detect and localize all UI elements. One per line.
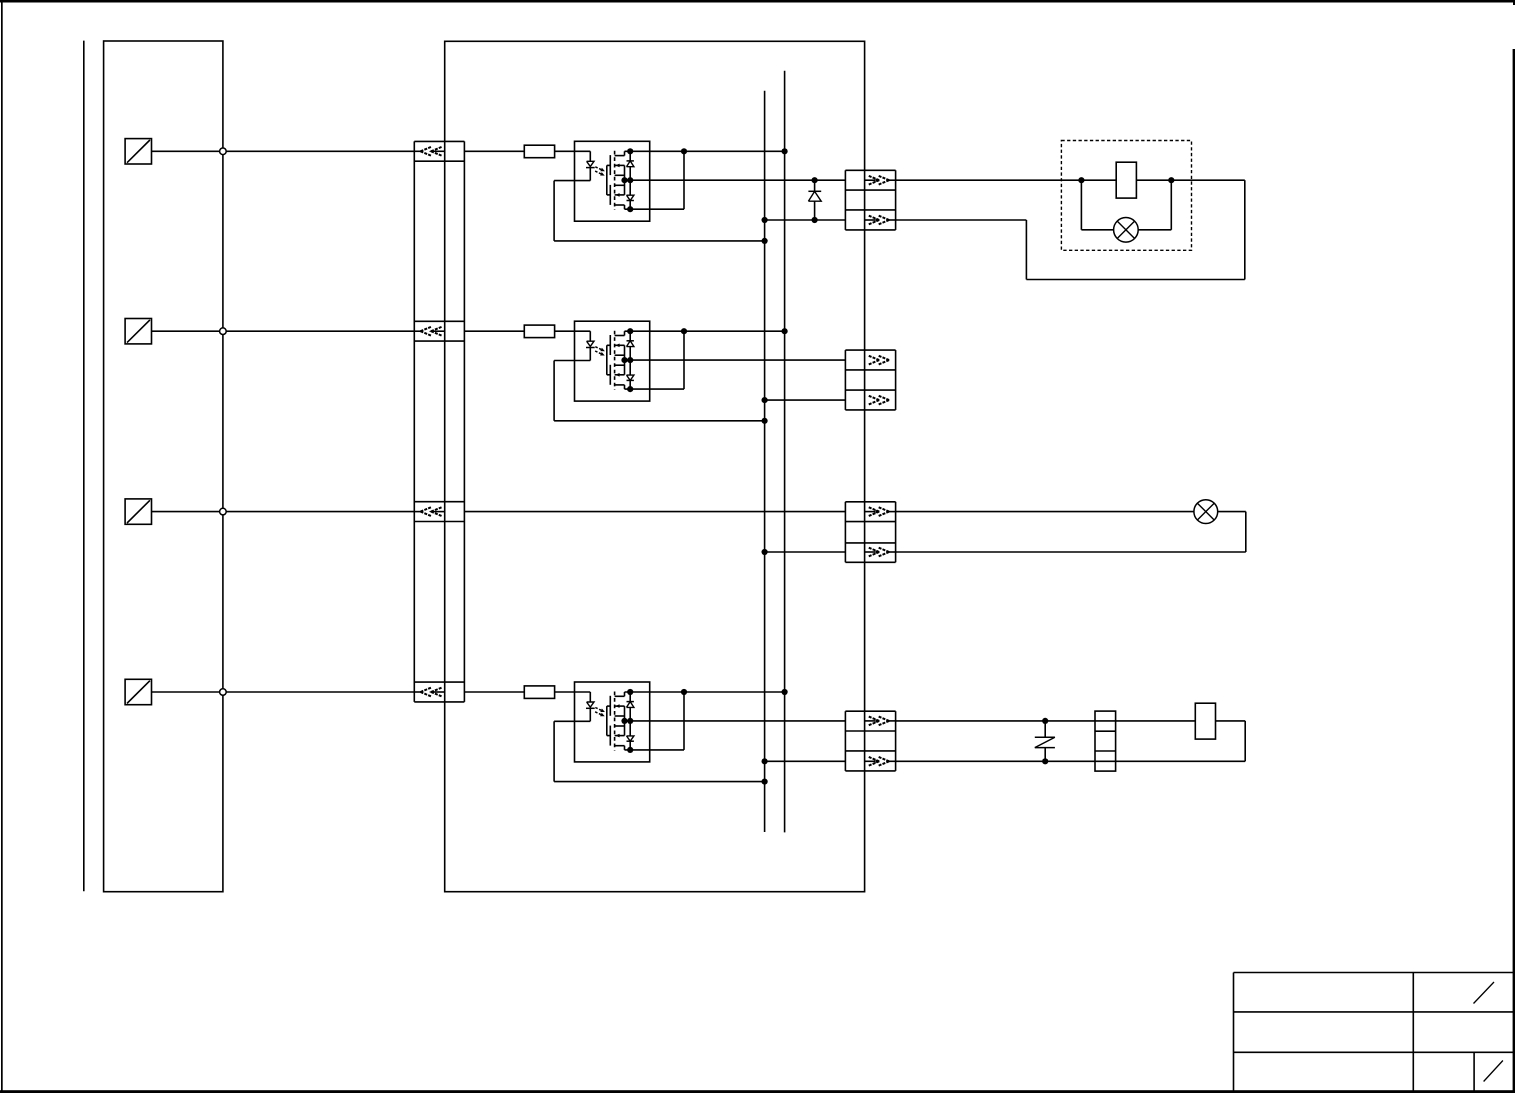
connector X3 strip — [1095, 711, 1116, 771]
title block — [1234, 973, 1514, 1091]
connector X2 pin 1b (>>) — [865, 216, 896, 225]
MOSFET pair U2 channel — [614, 331, 616, 390]
body diodes U2 — [627, 331, 634, 389]
connector X2 pin 1a (>>) — [865, 176, 896, 185]
LED U1 — [586, 151, 595, 180]
wire bus1 to X2 row2 — [762, 397, 846, 403]
trunk line — [83, 41, 85, 892]
MOSFET pair U1 terminals — [615, 151, 625, 209]
relay K1 coil — [1116, 162, 1136, 198]
MOSFET pair U1 channel — [614, 151, 616, 210]
wire U2 source out — [621, 357, 845, 363]
fuse F4 — [524, 686, 554, 699]
MOSFET pair U4 channel — [614, 692, 616, 751]
ECU box — [104, 41, 223, 892]
wire X1 to fuse F4 — [464, 691, 524, 693]
wire S3 to connector X1 — [152, 511, 415, 513]
wire S2 to connector X1 — [152, 330, 415, 332]
connector X2 pin 3a (>>) — [865, 507, 896, 516]
connector X1 pin 1 (<<) — [414, 147, 444, 156]
connector X2 pin 3b (>>) — [865, 548, 896, 557]
wire U2 bottom — [625, 331, 685, 392]
wire row1 feed — [896, 177, 1116, 183]
connector X1 pin 3 (<<) — [414, 507, 444, 516]
wire LED return U2 — [554, 361, 768, 424]
body diodes U1 — [627, 151, 634, 209]
wire U4 bottom — [625, 692, 685, 753]
bus line 2 — [784, 71, 786, 833]
wire K1 to corner — [1137, 177, 1245, 183]
wire U2 drain rail — [625, 328, 788, 334]
fuse F1 — [524, 145, 554, 158]
connector X2 block row4 — [845, 711, 895, 771]
relay K1 dashed enclosure — [1061, 141, 1191, 251]
resistor R1 — [1195, 703, 1215, 739]
connector X2 block row1 — [845, 170, 895, 230]
wire X1 to fuse F2 — [464, 330, 524, 332]
wire F4 to SSR U4 — [555, 691, 591, 693]
MOSFET pair U2 terminals — [615, 331, 625, 389]
MOSFET pair U4 terminals — [615, 692, 625, 750]
wire row4 feed — [896, 718, 1196, 724]
wire U1 drain rail — [625, 148, 788, 154]
wire row3 to lamp — [896, 511, 1195, 513]
wire U1 source out — [621, 177, 845, 183]
wire row3 return — [896, 512, 1246, 552]
wire X1 to fuse F1 — [464, 150, 524, 152]
MOSFET pair U2 gates — [607, 335, 611, 385]
connector X1 terminal strip — [414, 141, 464, 702]
fuse F2 — [524, 325, 554, 338]
wire row1 return loop — [896, 180, 1245, 279]
connector X1 pin 4 (<<) — [414, 688, 444, 697]
light arrows U1 — [595, 167, 605, 176]
connector X2 pin 2a (>>) — [869, 356, 890, 365]
lamp L2 — [1194, 500, 1218, 524]
wire U4 drain rail — [625, 689, 788, 695]
wire bus1 to X2 row1 — [762, 217, 846, 223]
connector X1 pin 2 (<<) — [414, 327, 444, 336]
wire U4 source out — [621, 718, 845, 724]
wire LED return U1 — [554, 181, 768, 244]
wire bus1 to X2 row3 — [762, 549, 846, 555]
surge suppressor Z1 — [1035, 721, 1055, 761]
node 2 (open junction) — [220, 328, 227, 335]
body diodes U4 — [627, 692, 634, 750]
wire F1 to SSR U1 — [555, 150, 591, 152]
diode D1 — [808, 177, 821, 223]
node 3 (open junction) — [220, 508, 227, 515]
wire F2 to SSR U2 — [555, 330, 591, 332]
switch S2 — [125, 319, 151, 344]
wire U1 bottom — [625, 151, 685, 212]
wire S4 to connector X1 — [152, 691, 415, 693]
MOSFET pair U4 gates — [607, 696, 611, 746]
wire row3 through — [464, 511, 845, 513]
connector X2 pin 4b (>>) — [865, 757, 896, 766]
lamp L1 — [1114, 218, 1139, 243]
solid-state relay U1 box — [575, 141, 650, 221]
control module box — [445, 41, 865, 891]
switch S1 — [125, 139, 151, 164]
LED U4 — [586, 692, 595, 721]
bus line 1 — [764, 91, 766, 832]
wire bus1 to X2 row4 — [762, 758, 846, 764]
switch S3 — [125, 499, 151, 524]
wire S1 to connector X1 — [152, 150, 415, 152]
node 1 (open junction) — [220, 148, 227, 155]
connector X2 block row2 — [845, 350, 895, 410]
connector X2 pin 2b (>>) — [869, 396, 890, 405]
solid-state relay U2 box — [575, 321, 650, 401]
switch S4 — [125, 679, 151, 704]
MOSFET pair U1 gates — [607, 155, 611, 205]
light arrows U4 — [595, 708, 605, 717]
connector X2 pin 4a (>>) — [865, 717, 896, 726]
connector X2 block row3 — [845, 502, 895, 563]
wire LED return U4 — [554, 721, 768, 784]
wire lamp L1 branch — [1081, 180, 1171, 230]
LED U2 — [586, 331, 595, 360]
wire R1 loop — [896, 721, 1246, 765]
solid-state relay U4 box — [575, 682, 650, 762]
light arrows U2 — [595, 347, 605, 356]
node 4 (open junction) — [220, 689, 227, 696]
